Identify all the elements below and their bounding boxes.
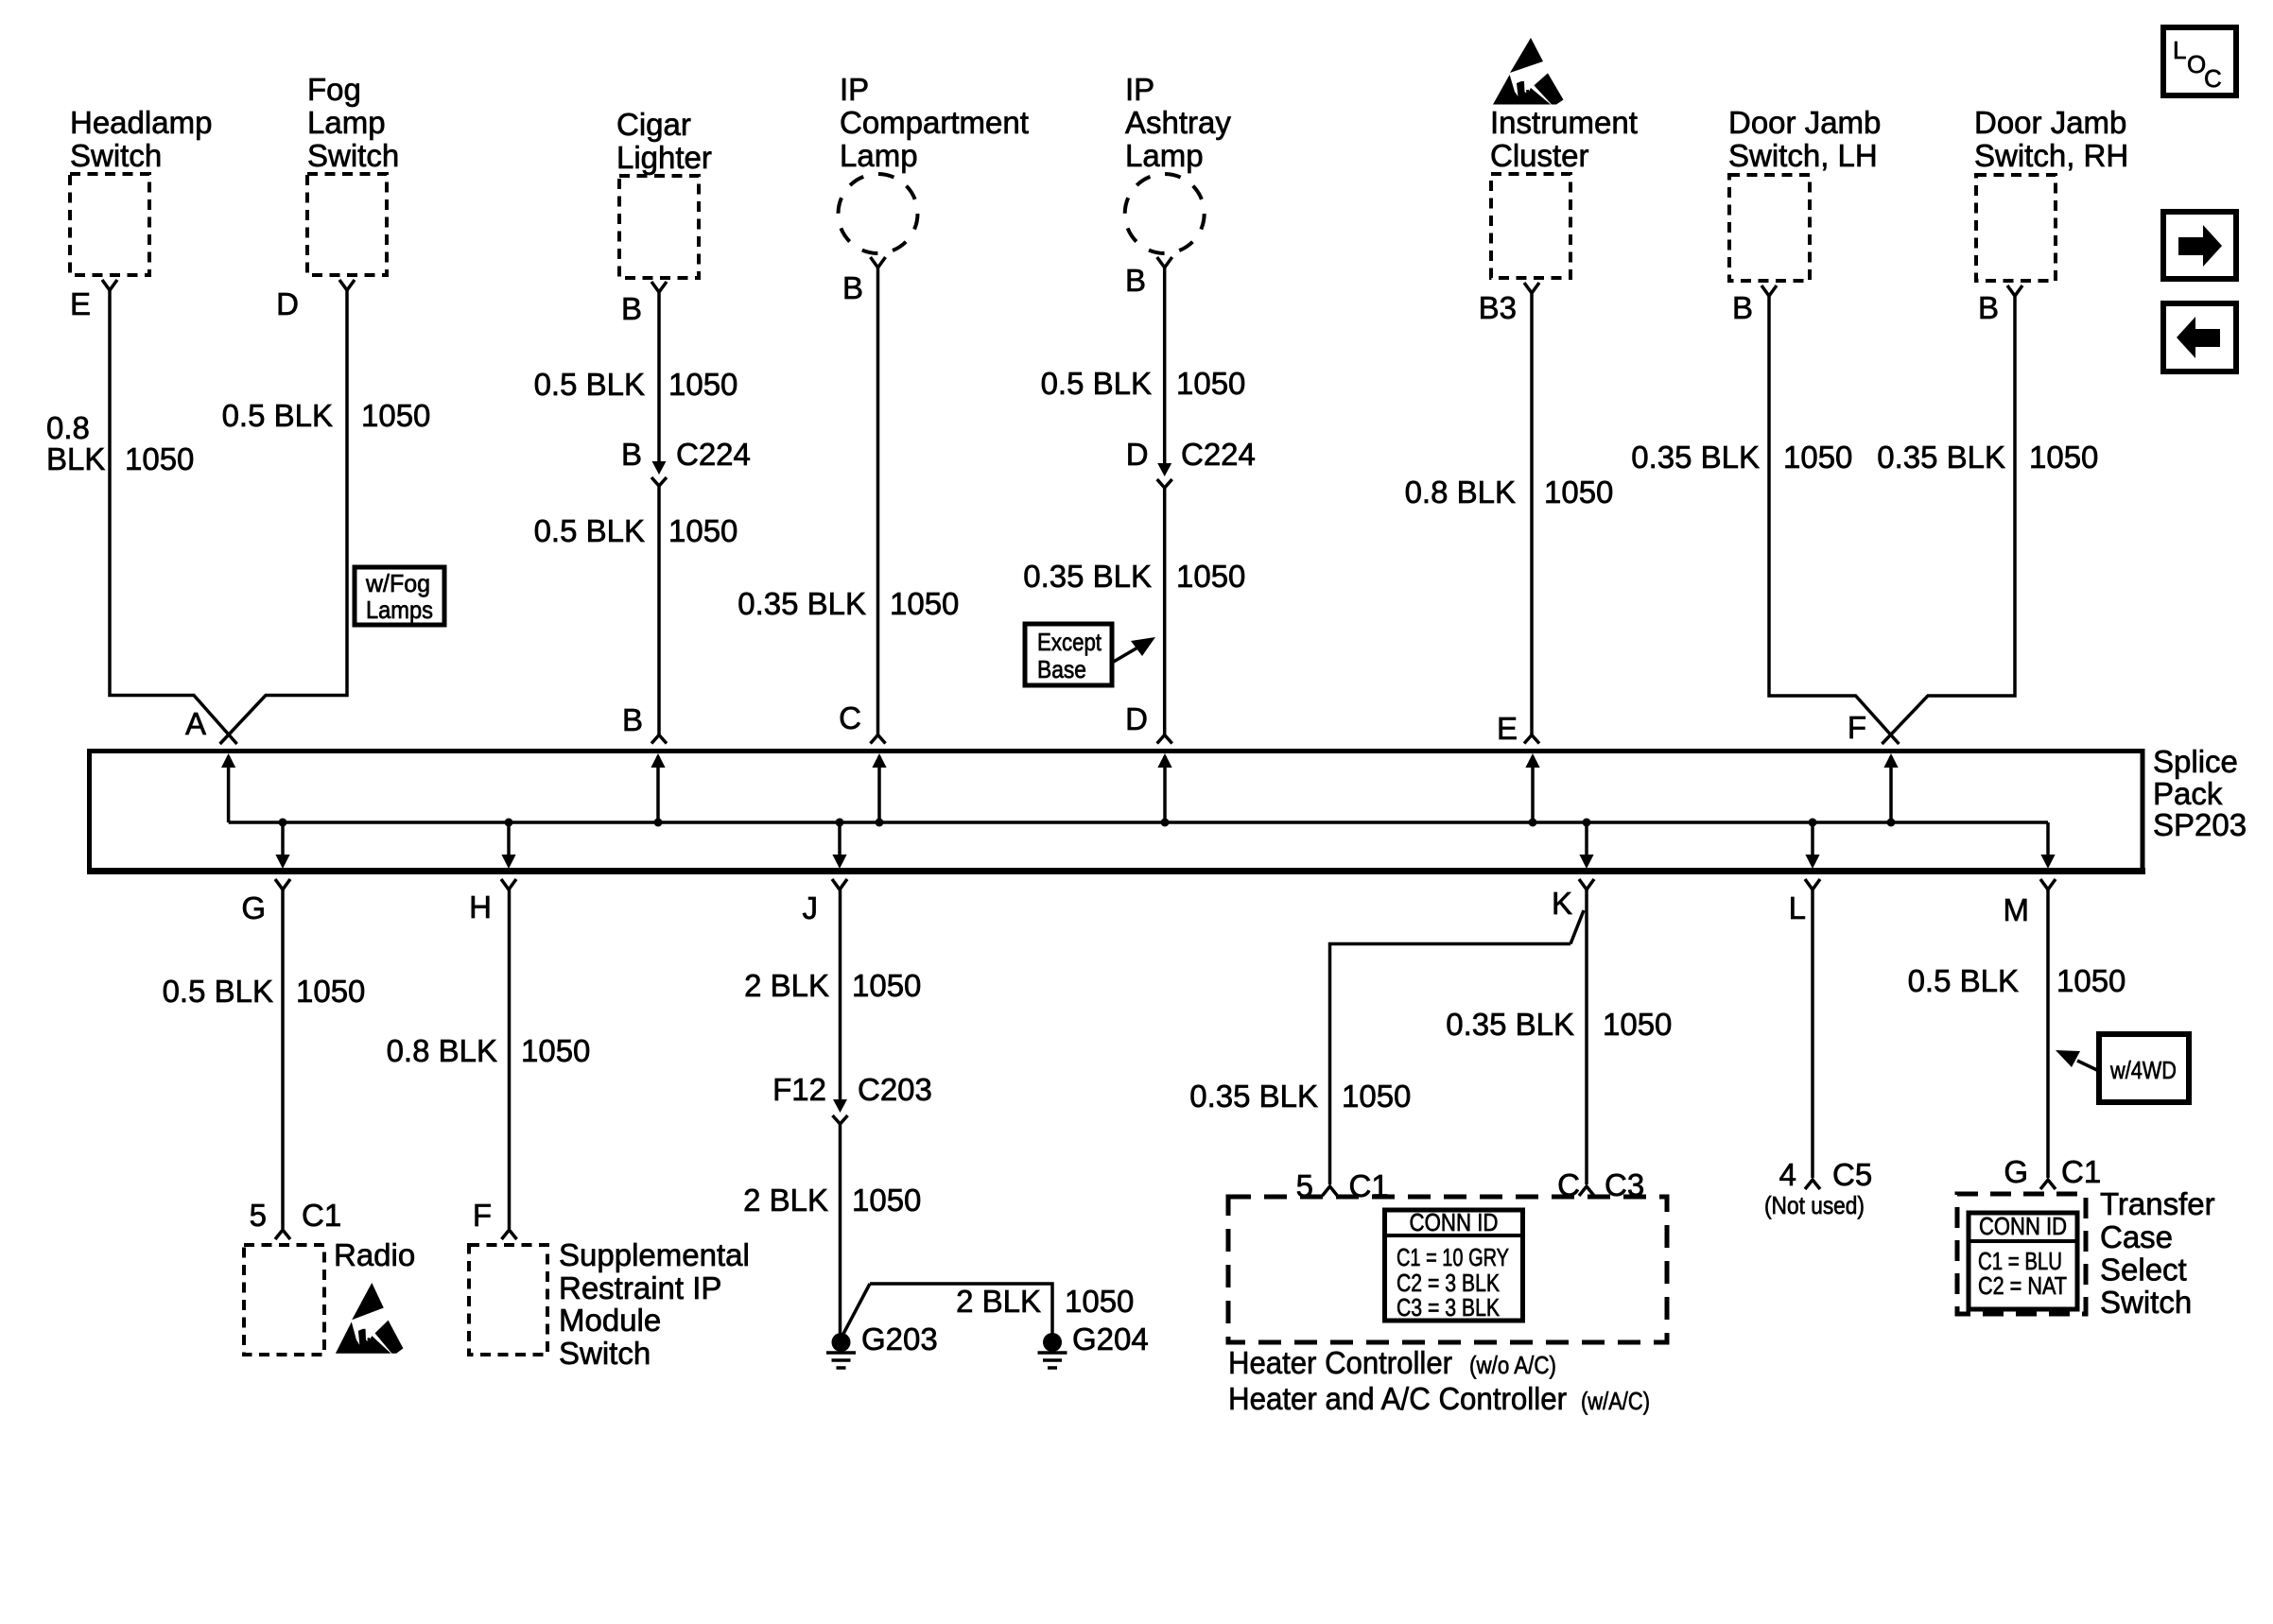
svg-text:0.35 BLK: 0.35 BLK xyxy=(1877,440,2005,475)
svg-text:C5: C5 xyxy=(1832,1157,1872,1192)
svg-text:2 BLK: 2 BLK xyxy=(743,1183,828,1218)
svg-text:(w/A/C): (w/A/C) xyxy=(1581,1387,1650,1415)
svg-text:CONN ID: CONN ID xyxy=(1410,1208,1499,1236)
svg-text:Heater and A/C Controller: Heater and A/C Controller xyxy=(1228,1381,1567,1416)
svg-text:0.35 BLK: 0.35 BLK xyxy=(1446,1007,1574,1042)
svg-text:C1: C1 xyxy=(302,1198,341,1233)
svg-text:A: A xyxy=(185,706,206,741)
svg-text:Switch, LH: Switch, LH xyxy=(1728,138,1878,173)
svg-text:1050: 1050 xyxy=(125,441,194,476)
svg-text:(w/o A/C): (w/o A/C) xyxy=(1469,1351,1556,1379)
svg-text:C: C xyxy=(839,700,861,735)
svg-text:C3 = 3 BLK: C3 = 3 BLK xyxy=(1397,1293,1501,1322)
svg-text:Base: Base xyxy=(1037,655,1086,683)
svg-text:5: 5 xyxy=(250,1198,267,1233)
svg-text:1050: 1050 xyxy=(1176,559,1245,594)
svg-text:D: D xyxy=(1125,701,1148,736)
svg-text:Transfer: Transfer xyxy=(2100,1186,2215,1221)
svg-text:1050: 1050 xyxy=(890,586,959,621)
svg-text:w/4WD: w/4WD xyxy=(2109,1056,2177,1084)
svg-text:B: B xyxy=(1732,290,1753,325)
svg-text:1050: 1050 xyxy=(1603,1007,1672,1042)
svg-text:B: B xyxy=(622,702,643,737)
svg-text:BLK: BLK xyxy=(46,441,105,476)
svg-text:H: H xyxy=(469,890,492,924)
svg-text:Case: Case xyxy=(2100,1219,2173,1254)
svg-text:Instrument: Instrument xyxy=(1490,105,1638,140)
svg-text:SP203: SP203 xyxy=(2153,807,2247,842)
svg-text:2 BLK: 2 BLK xyxy=(956,1284,1041,1319)
svg-text:0.5 BLK: 0.5 BLK xyxy=(534,513,645,548)
svg-text:J: J xyxy=(803,890,819,925)
svg-text:IP: IP xyxy=(840,72,869,107)
svg-text:0.35 BLK: 0.35 BLK xyxy=(1189,1079,1318,1114)
svg-text:Pack: Pack xyxy=(2153,776,2223,811)
svg-text:Lighter: Lighter xyxy=(616,140,712,175)
svg-text:K: K xyxy=(1552,886,1572,921)
svg-text:F: F xyxy=(473,1198,492,1233)
svg-text:M: M xyxy=(2004,892,2030,927)
svg-text:0.5 BLK: 0.5 BLK xyxy=(222,398,333,433)
svg-text:Cigar: Cigar xyxy=(616,107,691,142)
svg-text:B: B xyxy=(621,437,642,472)
svg-text:Fog: Fog xyxy=(307,72,361,107)
svg-text:G204: G204 xyxy=(1072,1322,1149,1356)
svg-text:Switch: Switch xyxy=(559,1336,651,1371)
svg-text:C: C xyxy=(2204,64,2222,93)
svg-text:Radio: Radio xyxy=(334,1237,415,1272)
svg-text:1050: 1050 xyxy=(1783,440,1852,475)
svg-text:0.35 BLK: 0.35 BLK xyxy=(737,586,866,621)
svg-text:B: B xyxy=(1978,290,1999,325)
svg-text:D: D xyxy=(1126,437,1149,472)
svg-text:L: L xyxy=(2173,36,2186,64)
svg-text:0.8: 0.8 xyxy=(46,410,90,445)
svg-text:2 BLK: 2 BLK xyxy=(744,968,829,1003)
svg-text:Splice: Splice xyxy=(2153,744,2238,779)
svg-text:1050: 1050 xyxy=(852,968,921,1003)
svg-text:0.5 BLK: 0.5 BLK xyxy=(1908,963,2019,998)
svg-text:0.8 BLK: 0.8 BLK xyxy=(387,1033,497,1068)
svg-text:0.5 BLK: 0.5 BLK xyxy=(534,367,645,402)
svg-text:C1: C1 xyxy=(2061,1154,2101,1189)
svg-text:Supplemental: Supplemental xyxy=(559,1237,750,1272)
svg-text:Door Jamb: Door Jamb xyxy=(1728,105,1881,140)
svg-text:Lamp: Lamp xyxy=(1125,138,1204,173)
svg-text:B: B xyxy=(842,270,863,305)
svg-text:0.35 BLK: 0.35 BLK xyxy=(1023,559,1152,594)
svg-text:4: 4 xyxy=(1779,1157,1796,1192)
svg-text:0.35 BLK: 0.35 BLK xyxy=(1631,440,1760,475)
svg-text:Restraint IP: Restraint IP xyxy=(559,1270,721,1305)
svg-text:Ashtray: Ashtray xyxy=(1125,105,1231,140)
svg-text:1050: 1050 xyxy=(2029,440,2098,475)
svg-text:G: G xyxy=(2004,1154,2028,1189)
svg-text:E: E xyxy=(70,286,91,321)
svg-text:E: E xyxy=(1497,711,1518,746)
svg-text:1050: 1050 xyxy=(1065,1284,1134,1319)
svg-text:Switch: Switch xyxy=(2100,1285,2192,1320)
svg-text:Lamps: Lamps xyxy=(366,596,433,624)
svg-text:w/Fog: w/Fog xyxy=(365,569,430,597)
svg-text:Select: Select xyxy=(2100,1253,2187,1287)
svg-text:D: D xyxy=(276,286,299,321)
svg-text:Module: Module xyxy=(559,1303,661,1338)
svg-text:B: B xyxy=(621,291,642,326)
svg-text:1050: 1050 xyxy=(2056,963,2126,998)
svg-text:1050: 1050 xyxy=(361,398,430,433)
svg-text:1050: 1050 xyxy=(296,974,365,1009)
svg-text:G: G xyxy=(241,890,266,925)
svg-text:Except: Except xyxy=(1037,628,1102,656)
svg-text:IP: IP xyxy=(1125,72,1154,107)
svg-text:C203: C203 xyxy=(858,1072,932,1107)
svg-text:1050: 1050 xyxy=(1544,475,1613,510)
svg-text:Heater Controller: Heater Controller xyxy=(1228,1345,1452,1380)
svg-text:Door Jamb: Door Jamb xyxy=(1974,105,2126,140)
svg-text:G203: G203 xyxy=(861,1322,938,1356)
svg-text:1050: 1050 xyxy=(852,1183,921,1218)
svg-text:1050: 1050 xyxy=(668,513,737,548)
svg-text:C2 = NAT: C2 = NAT xyxy=(1978,1271,2067,1300)
svg-text:1050: 1050 xyxy=(1342,1079,1411,1114)
svg-text:0.5 BLK: 0.5 BLK xyxy=(163,974,273,1009)
svg-text:Switch, RH: Switch, RH xyxy=(1974,138,2128,173)
svg-text:0.8 BLK: 0.8 BLK xyxy=(1405,475,1516,510)
svg-text:C1 = 10 GRY: C1 = 10 GRY xyxy=(1397,1243,1509,1271)
svg-text:1050: 1050 xyxy=(521,1033,590,1068)
svg-text:1050: 1050 xyxy=(668,367,737,402)
svg-text:Cluster: Cluster xyxy=(1490,138,1589,173)
svg-text:0.5 BLK: 0.5 BLK xyxy=(1041,366,1152,401)
svg-text:F12: F12 xyxy=(772,1072,826,1107)
svg-text:Switch: Switch xyxy=(70,138,162,173)
svg-text:1050: 1050 xyxy=(1176,366,1245,401)
svg-text:C224: C224 xyxy=(1181,437,1256,472)
svg-text:B3: B3 xyxy=(1479,290,1517,325)
svg-text:Lamp: Lamp xyxy=(840,138,918,173)
svg-text:CONN ID: CONN ID xyxy=(1979,1212,2067,1240)
svg-text:Lamp: Lamp xyxy=(307,105,386,140)
svg-text:F: F xyxy=(1848,710,1866,745)
svg-text:Switch: Switch xyxy=(307,138,399,173)
svg-text:Headlamp: Headlamp xyxy=(70,105,212,140)
svg-text:B: B xyxy=(1125,263,1146,298)
svg-text:L: L xyxy=(1789,890,1806,925)
svg-text:C224: C224 xyxy=(676,437,751,472)
svg-text:Compartment: Compartment xyxy=(840,105,1029,140)
svg-text:(Not used): (Not used) xyxy=(1764,1191,1865,1219)
